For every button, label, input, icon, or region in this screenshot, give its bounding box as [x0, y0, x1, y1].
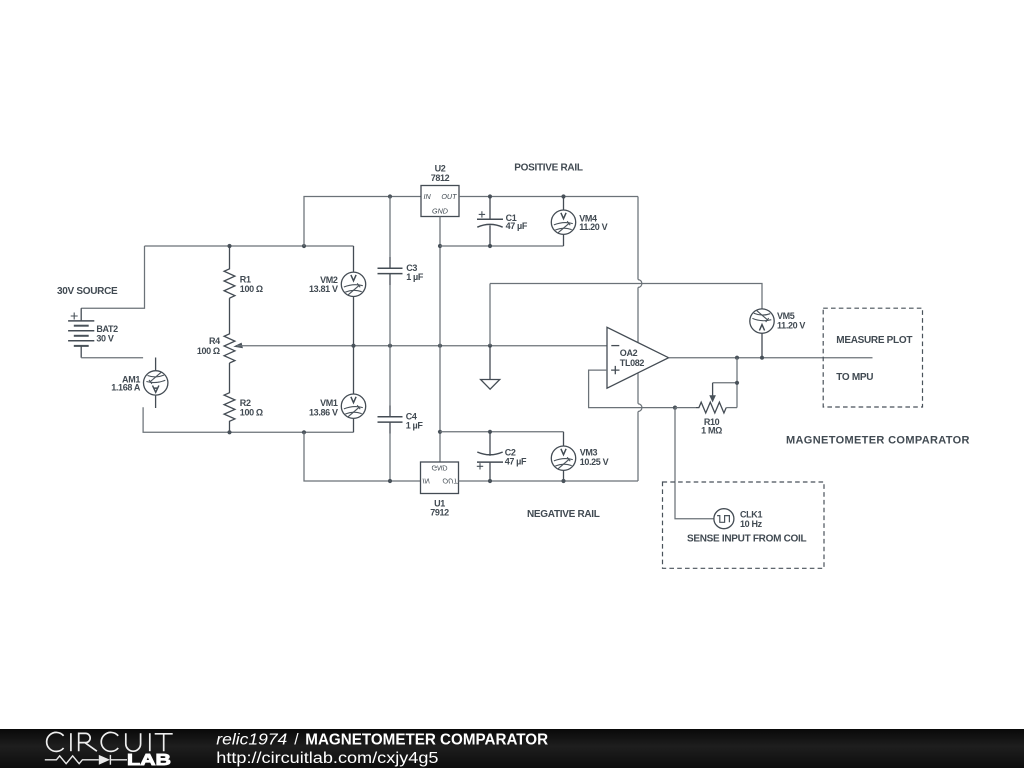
resistor R1: [224, 246, 235, 298]
svg-text:1.168 A: 1.168 A: [111, 383, 141, 393]
svg-text:13.86 V: 13.86 V: [309, 408, 338, 418]
svg-text:47 µF: 47 µF: [505, 457, 527, 467]
wire mid y283: [490, 284, 762, 309]
svg-text:13.81 V: 13.81 V: [309, 284, 338, 294]
wire negative rail: [459, 480, 639, 482]
svg-text:POSITIVE RAIL: POSITIVE RAIL: [514, 163, 583, 174]
svg-text:30 V: 30 V: [96, 333, 113, 343]
wire bottom left: [143, 407, 353, 432]
svg-text:100 Ω: 100 Ω: [240, 408, 263, 418]
resistor R10 rheostat: [675, 358, 737, 413]
svg-text:LAB: LAB: [127, 752, 171, 768]
ground: [481, 346, 500, 390]
wire to CLK1: [675, 408, 714, 519]
svg-text:CLK1: CLK1: [740, 510, 762, 520]
svg-text:TO MPU: TO MPU: [836, 372, 873, 383]
op-amp OA2: [607, 327, 669, 388]
regulator U1 7912: [421, 462, 459, 494]
svg-text:10.25 V: 10.25 V: [580, 457, 609, 467]
voltmeter VM5: [750, 309, 774, 358]
svg-text:100 Ω: 100 Ω: [197, 346, 220, 356]
svg-text:100 Ω: 100 Ω: [240, 284, 263, 294]
svg-text:MEASURE PLOT: MEASURE PLOT: [836, 335, 912, 346]
svg-text:NEGATIVE RAIL: NEGATIVE RAIL: [527, 509, 600, 520]
svg-text:U2: U2: [435, 163, 446, 173]
node negrail-C2: [488, 479, 492, 483]
node negrail-VM3: [561, 479, 565, 483]
svg-text:1 µF: 1 µF: [406, 420, 424, 430]
svg-text:relic1974: relic1974: [216, 732, 287, 749]
regulator U2 7812: [421, 186, 459, 217]
svg-text:GND: GND: [432, 207, 448, 216]
svg-text:OA2: OA2: [620, 348, 638, 358]
capacitor C2: [477, 432, 503, 481]
wire riser to negative rail: [304, 432, 421, 481]
capacitor C4: [378, 346, 403, 481]
svg-text:VM5: VM5: [777, 311, 795, 321]
voltmeter VM4: [551, 197, 575, 235]
svg-text:/: /: [294, 732, 299, 749]
node bottomleft-R2: [227, 430, 231, 434]
node IN-C3: [388, 194, 392, 198]
node rail-riser: [302, 244, 306, 248]
svg-text:http://circuitlab.com/cxjy4g5: http://circuitlab.com/cxjy4g5: [216, 750, 438, 767]
dashed box sense input: [663, 482, 825, 568]
node out-VM4: [561, 194, 565, 198]
resistor R4 potentiometer: [224, 298, 235, 363]
node mid-U2gnd: [438, 430, 442, 434]
svg-text:TL082: TL082: [620, 358, 645, 368]
svg-text:7912: 7912: [430, 508, 449, 518]
logo resistor-diode: [45, 755, 127, 765]
svg-text:VM1: VM1: [320, 398, 338, 408]
svg-text:47 µF: 47 µF: [506, 221, 528, 231]
node mid-C2: [488, 430, 492, 434]
node out-C1: [488, 194, 492, 198]
svg-text:11.20 V: 11.20 V: [579, 222, 607, 232]
wire top rail: [145, 245, 354, 247]
svg-text:R4: R4: [209, 336, 220, 346]
wire wiper line: [237, 345, 607, 347]
node gndrail-left: [438, 244, 442, 248]
svg-text:SENSE INPUT FROM COIL: SENSE INPUT FROM COIL: [687, 533, 806, 544]
dashed box measure plot: [823, 308, 922, 407]
svg-text:OUT: OUT: [441, 192, 457, 201]
wire feedback plus input: [589, 370, 675, 408]
wire right vertical with hops: [637, 197, 639, 280]
svg-text:IN: IN: [424, 192, 432, 201]
wire mid horizontal to VM3/C2: [440, 431, 564, 433]
svg-text:OUT: OUT: [442, 476, 458, 485]
node negrail-C4: [388, 479, 392, 483]
svg-text:1 µF: 1 µF: [406, 272, 424, 282]
voltmeter VM3: [551, 446, 575, 481]
capacitor C3: [378, 197, 403, 346]
svg-text:IN: IN: [422, 476, 430, 485]
wire riser to U2 IN: [304, 197, 421, 247]
node out-R10: [735, 356, 739, 360]
svg-text:30V SOURCE: 30V SOURCE: [57, 286, 118, 297]
voltmeter VM2: [341, 246, 365, 346]
svg-text:10 Hz: 10 Hz: [740, 519, 763, 529]
node feedback-R10: [673, 406, 677, 410]
capacitor C1: [477, 197, 503, 247]
wire op-amp output: [669, 357, 873, 359]
wire U2 GND down: [439, 217, 441, 463]
battery BAT2: [68, 246, 144, 358]
svg-text:1 MΩ: 1 MΩ: [701, 426, 722, 436]
clock CLK1: [714, 509, 734, 529]
node bottomleft-riser: [302, 430, 306, 434]
node gndrail-C1: [488, 244, 492, 248]
node rail-R1: [227, 244, 231, 248]
svg-text:GND: GND: [432, 463, 448, 472]
svg-text:MAGNETOMETER COMPARATOR: MAGNETOMETER COMPARATOR: [786, 435, 970, 447]
svg-text:MAGNETOMETER COMPARATOR: MAGNETOMETER COMPARATOR: [305, 732, 548, 749]
node wiper-U2GND: [438, 344, 442, 348]
voltmeter VM1: [341, 346, 365, 419]
ammeter AM1: [144, 358, 168, 409]
node out-VM5: [760, 356, 764, 360]
resistor R2: [224, 363, 235, 432]
logo CIRCUIT letters: [47, 732, 173, 751]
svg-text:7812: 7812: [431, 173, 450, 183]
node wiper-VM: [351, 344, 355, 348]
wire gnd rail under C1: [440, 245, 564, 247]
node wiper-C34: [388, 344, 392, 348]
node wiper-gnd: [488, 344, 492, 348]
wire U2 OUT rail: [459, 196, 638, 198]
svg-text:11.20 V: 11.20 V: [777, 320, 805, 330]
